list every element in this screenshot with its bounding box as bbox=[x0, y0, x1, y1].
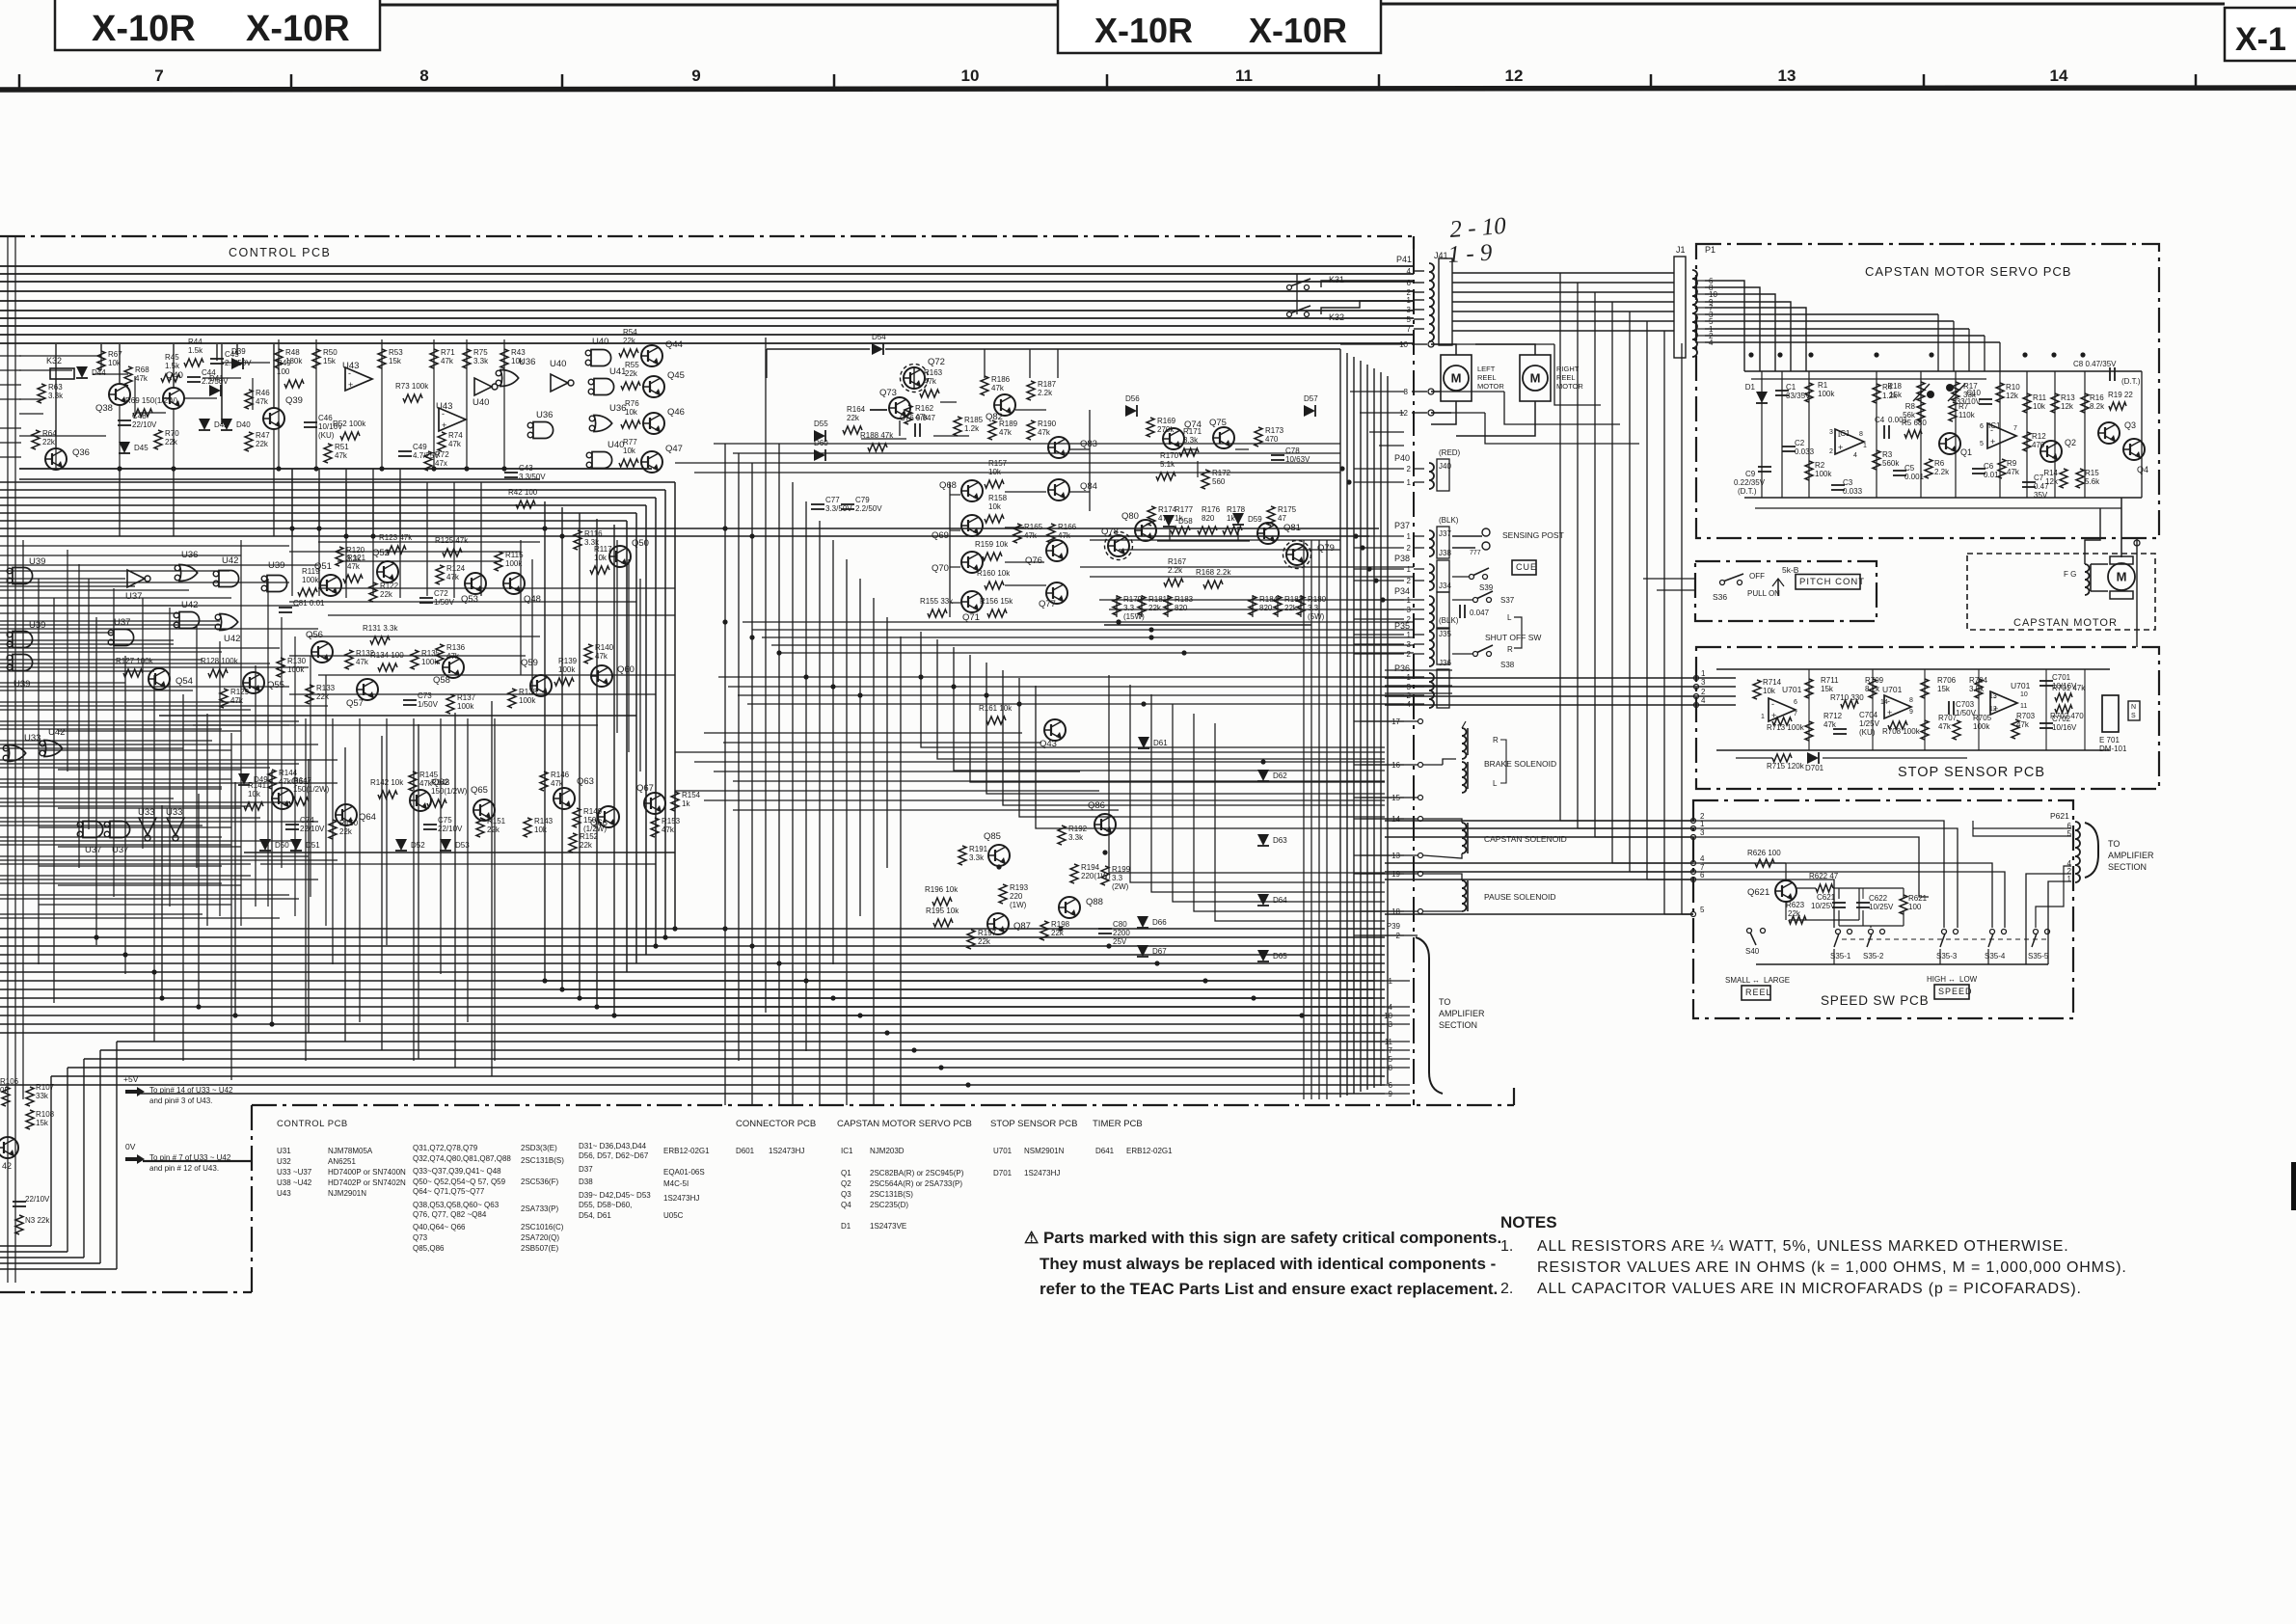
wire vertical left bbox=[124, 656, 126, 974]
ruler tick bbox=[1106, 74, 1109, 88]
svg-text:2SD3(3(E): 2SD3(3(E) bbox=[521, 1144, 557, 1152]
svg-text:R131 3.3k: R131 3.3k bbox=[363, 624, 398, 633]
resistor R5 bbox=[1904, 430, 1922, 438]
wire center horizontal bbox=[1099, 599, 1414, 601]
ruler tick bbox=[290, 74, 293, 88]
svg-text:R177: R177 bbox=[1175, 505, 1194, 514]
svg-text:1: 1 bbox=[1407, 478, 1412, 487]
svg-text:12k: 12k bbox=[2045, 477, 2059, 486]
svg-text:D55, D58~D60,: D55, D58~D60, bbox=[579, 1201, 632, 1209]
resistor R47 bbox=[245, 432, 253, 451]
svg-text:R162: R162 bbox=[915, 404, 934, 413]
REEL label bbox=[1742, 986, 1770, 1000]
svg-text:HD7400P or SN7400N: HD7400P or SN7400N bbox=[328, 1168, 406, 1177]
svg-text:4: 4 bbox=[1853, 452, 1857, 459]
right reel motor bbox=[1520, 355, 1551, 401]
diode D60 bbox=[814, 449, 825, 461]
svg-text:100: 100 bbox=[1908, 903, 1922, 911]
svg-text:R71: R71 bbox=[441, 348, 455, 357]
wire bus bottom riser bbox=[161, 805, 163, 998]
wire bus top bbox=[0, 265, 1414, 267]
svg-text:R158: R158 bbox=[988, 494, 1008, 502]
switch S37 bbox=[1473, 598, 1478, 603]
svg-text:K32: K32 bbox=[46, 356, 62, 365]
svg-text:Q76, Q77, Q82 ~Q84: Q76, Q77, Q82 ~Q84 bbox=[413, 1210, 487, 1219]
resistor R712 bbox=[1805, 721, 1813, 741]
svg-text:D56, D57, D62~D67: D56, D57, D62~D67 bbox=[579, 1151, 649, 1160]
wire P1 feed bbox=[1705, 335, 1985, 337]
svg-text:2.: 2. bbox=[1500, 1281, 1513, 1297]
svg-text:1: 1 bbox=[1407, 532, 1412, 541]
wire bus mid bbox=[0, 489, 665, 491]
wire P1 feed bbox=[1705, 287, 1760, 371]
wire horizontal left bbox=[0, 836, 222, 838]
svg-text:R45: R45 bbox=[165, 353, 179, 362]
svg-text:X-10R: X-10R bbox=[1249, 11, 1347, 50]
diode D53 bbox=[440, 839, 451, 851]
wire center horizontal 2 bbox=[675, 462, 1340, 464]
svg-text:22k: 22k bbox=[580, 841, 593, 850]
wire junction bbox=[577, 995, 581, 1000]
scan artifact right edge bbox=[2291, 1162, 2296, 1210]
resistor R707 bbox=[1921, 720, 1929, 740]
wire junction bbox=[830, 684, 835, 689]
resistor R626 bbox=[1755, 859, 1774, 867]
svg-text:15k: 15k bbox=[389, 357, 402, 365]
svg-text:R709: R709 bbox=[1865, 676, 1884, 685]
pause solenoid coil bbox=[1462, 880, 1467, 911]
wire pin10 link bbox=[1431, 343, 1554, 345]
svg-text:R13: R13 bbox=[2061, 393, 2075, 402]
wire junction bbox=[884, 1030, 889, 1035]
wire vertical center bbox=[819, 521, 821, 1105]
wire vertical right trunk bbox=[1646, 321, 1648, 880]
wire stop sensor feed bbox=[1385, 677, 1452, 679]
wire vertical right trunk bbox=[1629, 311, 1631, 872]
U39 gate bbox=[13, 568, 33, 584]
transistor Q59 bbox=[530, 675, 552, 696]
svg-text:D54, D61: D54, D61 bbox=[579, 1211, 611, 1220]
wire vertical left bbox=[182, 694, 184, 1061]
svg-text:C74: C74 bbox=[300, 816, 314, 825]
svg-text:470: 470 bbox=[1265, 435, 1279, 444]
svg-text:Q1: Q1 bbox=[1960, 447, 1972, 457]
wire vertical center bbox=[859, 579, 861, 916]
svg-text:3.3: 3.3 bbox=[1112, 874, 1123, 882]
transistor Q40 bbox=[163, 388, 184, 409]
svg-text:0.033: 0.033 bbox=[1843, 487, 1863, 496]
wire J41-J1 link bbox=[1452, 282, 1674, 284]
svg-text:+: + bbox=[1990, 437, 1995, 447]
diode D64 bbox=[1257, 894, 1269, 906]
U42 gate bbox=[219, 571, 239, 587]
resistor R54 bbox=[619, 349, 638, 357]
svg-text:47k: 47k bbox=[446, 573, 460, 582]
transistor Q85 bbox=[988, 845, 1010, 866]
svg-text:S35-1: S35-1 bbox=[1830, 952, 1851, 961]
wire bus mid bbox=[0, 512, 636, 514]
wire bus mid bbox=[0, 520, 627, 522]
svg-text:S35-4: S35-4 bbox=[1985, 952, 2006, 961]
U43 opamp bbox=[439, 408, 466, 431]
wire K31 net bbox=[1321, 281, 1414, 287]
svg-text:6: 6 bbox=[1794, 699, 1797, 706]
wire center horizontal bbox=[752, 629, 1414, 631]
svg-text:R707: R707 bbox=[1938, 714, 1958, 722]
wire junction bbox=[431, 466, 436, 471]
resistor R44 bbox=[184, 359, 203, 366]
svg-text:J34: J34 bbox=[1439, 582, 1451, 590]
wire top-left drops bbox=[55, 344, 57, 448]
wire vertical connector bundle bbox=[1387, 376, 1389, 1084]
svg-text:22k: 22k bbox=[1284, 604, 1298, 612]
wire bus top bbox=[0, 273, 1414, 275]
svg-text:R178: R178 bbox=[1227, 505, 1246, 514]
svg-text:refer to the TEAC Parts List a: refer to the TEAC Parts List and ensure … bbox=[1040, 1280, 1498, 1298]
svg-text:R123 47k: R123 47k bbox=[379, 533, 413, 542]
svg-text:U33: U33 bbox=[166, 807, 182, 818]
svg-text:270k: 270k bbox=[1157, 425, 1175, 434]
wire vertical gate-area bbox=[196, 627, 198, 868]
wire horizontal left bbox=[0, 643, 174, 645]
svg-text:R119: R119 bbox=[302, 567, 320, 576]
resistor R140 bbox=[584, 644, 592, 663]
wire center elbow bbox=[921, 632, 1385, 747]
svg-text:R125 47k: R125 47k bbox=[435, 536, 469, 545]
cap 0.047 bbox=[1459, 605, 1461, 618]
svg-text:U33: U33 bbox=[138, 807, 154, 818]
svg-text:To pin # 7 of U33 ~ U42: To pin # 7 of U33 ~ U42 bbox=[149, 1153, 231, 1162]
resistor R19 bbox=[2109, 402, 2126, 410]
wire vertical left bbox=[95, 617, 97, 945]
svg-text:R196 10k: R196 10k bbox=[925, 885, 959, 894]
svg-text:Q53: Q53 bbox=[461, 594, 478, 605]
capstan motor FG coil bbox=[2085, 564, 2090, 595]
wire junction bbox=[803, 674, 808, 679]
cap C621 bbox=[1832, 902, 1846, 904]
svg-text:Q64: Q64 bbox=[359, 812, 376, 823]
svg-text:+: + bbox=[442, 420, 446, 430]
SPEED label bbox=[1934, 985, 1969, 999]
svg-text:F G: F G bbox=[2064, 570, 2076, 579]
svg-text:Q1: Q1 bbox=[841, 1169, 851, 1177]
transistor Q53 bbox=[465, 573, 486, 594]
transistor Q56 bbox=[311, 641, 333, 663]
wire horizontal gate-area bbox=[0, 805, 251, 807]
resistor R149 bbox=[573, 808, 581, 827]
wire pin feed bbox=[1354, 634, 1404, 636]
wire vertical gate-area bbox=[113, 588, 115, 897]
wire junction bbox=[1366, 566, 1371, 571]
wire P1 feed bbox=[1705, 281, 1744, 371]
svg-text:U40: U40 bbox=[550, 359, 566, 369]
svg-text:1.5k: 1.5k bbox=[165, 362, 180, 370]
svg-text:47k: 47k bbox=[279, 777, 292, 786]
svg-text:Q36: Q36 bbox=[72, 447, 90, 458]
svg-text:R175: R175 bbox=[1278, 505, 1297, 514]
wire junction bbox=[662, 934, 667, 939]
transistor Q88 bbox=[1059, 897, 1080, 918]
diode D55 bbox=[814, 430, 825, 442]
svg-text:R168 2.2k: R168 2.2k bbox=[1196, 568, 1231, 577]
wire center horizontal bbox=[1109, 609, 1414, 610]
U33 inverter down 2 bbox=[167, 818, 184, 841]
wire center elbow low bbox=[1109, 675, 1385, 873]
svg-text:9: 9 bbox=[1909, 709, 1913, 716]
diode D58 bbox=[1163, 515, 1175, 527]
wire horizontal left 2 bbox=[0, 859, 338, 861]
transistor Q61 bbox=[272, 788, 293, 809]
svg-text:U32: U32 bbox=[277, 1157, 291, 1166]
svg-text:R169: R169 bbox=[1157, 417, 1176, 425]
svg-text:R7: R7 bbox=[1958, 402, 1969, 411]
transistor Q46 bbox=[643, 413, 664, 434]
CAPSTAN MOTOR SERVO PCB boundary (dash-dot) bbox=[1696, 244, 2159, 538]
svg-text:R12: R12 bbox=[2032, 432, 2046, 441]
resistor R72 bbox=[424, 451, 432, 471]
svg-text:R11: R11 bbox=[2033, 393, 2047, 402]
svg-text:CAPSTAN MOTOR SERVO PCB: CAPSTAN MOTOR SERVO PCB bbox=[1865, 264, 2071, 279]
resistor R708 bbox=[1888, 721, 1907, 729]
wire center horizontal 2 bbox=[694, 472, 1340, 474]
svg-text:10k: 10k bbox=[2033, 402, 2046, 411]
svg-text:U37: U37 bbox=[114, 617, 130, 628]
wire junction bbox=[1251, 995, 1256, 1000]
svg-text:R10: R10 bbox=[2006, 383, 2020, 392]
resistor R145 bbox=[409, 771, 417, 791]
svg-text:100k: 100k bbox=[558, 665, 576, 674]
svg-text:REEL: REEL bbox=[1556, 373, 1576, 382]
svg-text:C9: C9 bbox=[1745, 470, 1756, 478]
wire bus-connector elbow bbox=[1369, 431, 1404, 433]
wire junction bbox=[1874, 352, 1878, 357]
svg-text:R152: R152 bbox=[580, 832, 599, 841]
transistor Q77 bbox=[1046, 582, 1067, 604]
svg-text:47k: 47k bbox=[448, 440, 462, 448]
svg-text:J35: J35 bbox=[1439, 630, 1451, 638]
resistor R70 bbox=[154, 430, 162, 449]
servo rail 2 bbox=[1751, 378, 1986, 380]
transistor Q44 bbox=[641, 345, 662, 366]
svg-text:X-10R: X-10R bbox=[246, 9, 350, 49]
resistor R107 bbox=[26, 1087, 34, 1106]
diode D41 bbox=[209, 385, 221, 396]
svg-text:+: + bbox=[348, 380, 353, 390]
wire P1 feed bbox=[1705, 302, 1791, 371]
svg-text:R: R bbox=[1493, 736, 1499, 744]
svg-text:D56: D56 bbox=[1125, 394, 1140, 403]
wire center horizontal 2 bbox=[733, 452, 1340, 454]
wire vertical right trunk bbox=[1577, 283, 1579, 828]
wire horizontal gate-area bbox=[0, 825, 203, 826]
svg-text:M: M bbox=[1530, 371, 1541, 386]
wire horizontal left bbox=[0, 682, 125, 684]
wire left-mid fill bbox=[39, 788, 222, 790]
U41 gate bbox=[594, 379, 614, 395]
resistor R199 bbox=[1101, 866, 1109, 885]
wire bus bottom bbox=[0, 945, 1385, 947]
servo bottom rail bbox=[1744, 497, 2142, 499]
svg-text:(BLK): (BLK) bbox=[1439, 516, 1459, 525]
wire bus bottom bbox=[0, 962, 1385, 964]
svg-text:R46: R46 bbox=[256, 389, 270, 397]
svg-text:R8: R8 bbox=[1905, 402, 1916, 411]
svg-text:Q73: Q73 bbox=[879, 388, 897, 398]
resistor R64 bbox=[32, 430, 40, 449]
wire P1 feed bbox=[1705, 341, 2000, 343]
svg-text:0.047: 0.047 bbox=[1470, 609, 1490, 617]
svg-text:L: L bbox=[1507, 613, 1512, 622]
wire junction bbox=[2051, 352, 2056, 357]
svg-text:10/25V: 10/25V bbox=[1869, 903, 1894, 911]
svg-text:C622: C622 bbox=[1869, 894, 1888, 903]
sensing post bbox=[1482, 528, 1490, 536]
svg-text:D38: D38 bbox=[579, 1177, 593, 1186]
svg-text:47k: 47k bbox=[135, 374, 149, 383]
P621 bracket bbox=[2085, 823, 2098, 878]
svg-text:R9: R9 bbox=[2007, 459, 2017, 468]
wire horizontal left bbox=[0, 778, 231, 780]
wire speed sw internals bbox=[1785, 863, 1787, 880]
svg-text:5.1k: 5.1k bbox=[1160, 460, 1175, 469]
svg-text:U43: U43 bbox=[342, 361, 359, 371]
wire left-mid fill bbox=[39, 826, 231, 828]
wire horizontal left 2 bbox=[0, 744, 318, 745]
wire bus bottom bbox=[0, 1006, 1385, 1008]
wire vertical center bbox=[738, 453, 740, 1061]
svg-text:R140: R140 bbox=[595, 643, 614, 652]
svg-text:C76 0.047: C76 0.047 bbox=[900, 414, 935, 422]
svg-text:47k: 47k bbox=[230, 696, 244, 705]
svg-text:12k: 12k bbox=[2006, 392, 2019, 400]
svg-text:R710 330: R710 330 bbox=[1830, 693, 1864, 702]
svg-text:110k: 110k bbox=[1958, 411, 1976, 420]
diode D39 bbox=[231, 358, 243, 369]
svg-text:15k: 15k bbox=[1821, 685, 1834, 693]
cap C2 bbox=[1782, 446, 1796, 447]
stop sensor rails bbox=[1716, 668, 2110, 670]
svg-text:Q2: Q2 bbox=[2065, 438, 2076, 447]
U36 gate bbox=[500, 370, 519, 387]
resistor R197 bbox=[967, 930, 975, 949]
svg-text:2 - 10: 2 - 10 bbox=[1449, 213, 1508, 243]
wire horizontal left 2 bbox=[0, 801, 289, 803]
resistor R143 bbox=[524, 818, 531, 837]
wire bus top bbox=[0, 325, 1414, 327]
wire center horizontal 2 bbox=[714, 443, 1340, 445]
svg-text:150(1/2W): 150(1/2W) bbox=[431, 787, 468, 796]
wire junction bbox=[542, 978, 547, 983]
resistor R704 bbox=[1975, 679, 1983, 698]
cap C701 bbox=[2039, 680, 2053, 682]
resistor R701 bbox=[2055, 693, 2072, 701]
svg-text:BRAKE SOLENOID: BRAKE SOLENOID bbox=[1484, 759, 1556, 769]
svg-text:Q67: Q67 bbox=[636, 783, 654, 794]
resistor R128 bbox=[208, 669, 228, 677]
resistor R51 bbox=[324, 444, 332, 463]
wire horizontal gate-area bbox=[0, 786, 222, 788]
wire junction bbox=[1154, 961, 1159, 965]
resistor R623 bbox=[1789, 916, 1806, 924]
svg-text:R187: R187 bbox=[1038, 380, 1057, 389]
wire left-mid vfill bbox=[616, 540, 618, 733]
wire vertical left bbox=[206, 714, 208, 926]
svg-text:47: 47 bbox=[1278, 514, 1286, 523]
U39 gate bbox=[267, 576, 287, 592]
wire center horizontal bbox=[747, 703, 1414, 705]
wire junction bbox=[1260, 759, 1265, 764]
wire left-mid fill bbox=[338, 560, 501, 562]
wire row rail low bbox=[244, 852, 675, 853]
svg-text:C2: C2 bbox=[1795, 439, 1805, 447]
wire junction bbox=[1106, 943, 1111, 948]
svg-text:X-10R: X-10R bbox=[92, 9, 196, 49]
resistor R151 bbox=[476, 818, 484, 837]
wire vertical connector bundle bbox=[1339, 349, 1341, 1097]
svg-text:0.033: 0.033 bbox=[1795, 447, 1815, 456]
svg-text:S: S bbox=[2131, 713, 2136, 719]
wire rail drops bbox=[119, 469, 121, 536]
wire bus bottom bbox=[0, 997, 1385, 999]
wire junction bbox=[1102, 850, 1107, 854]
svg-text:J36: J36 bbox=[1439, 659, 1451, 667]
wire junction bbox=[122, 952, 127, 957]
svg-text:D40: D40 bbox=[236, 420, 251, 429]
resistor R198 bbox=[1040, 921, 1048, 940]
wire left-mid fill bbox=[39, 904, 231, 906]
diode D56 bbox=[1125, 405, 1137, 417]
svg-text:C8 0.47/35V: C8 0.47/35V bbox=[2073, 360, 2117, 368]
wire center horizontal bbox=[1090, 576, 1414, 578]
resistor R13 bbox=[2051, 393, 2059, 413]
wire center elbow low bbox=[1173, 704, 1385, 902]
svg-text:2SC82BA(R) or 2SC945(P): 2SC82BA(R) or 2SC945(P) bbox=[870, 1169, 964, 1177]
svg-text:C77: C77 bbox=[825, 496, 840, 504]
svg-text:Q56: Q56 bbox=[306, 630, 323, 640]
svg-text:Q85: Q85 bbox=[984, 831, 1001, 842]
svg-text:R165: R165 bbox=[1024, 523, 1043, 531]
svg-text:S39: S39 bbox=[1479, 583, 1494, 592]
resistor R150 bbox=[329, 820, 337, 839]
svg-text:J38: J38 bbox=[1439, 549, 1451, 557]
wire horizontal gate-area bbox=[0, 670, 154, 672]
wire vertical connector bundle bbox=[1373, 368, 1375, 1088]
svg-text:R64: R64 bbox=[42, 429, 57, 438]
svg-text:D44: D44 bbox=[92, 368, 106, 377]
svg-text:22/10V: 22/10V bbox=[25, 1195, 50, 1204]
svg-text:U33 ~U37: U33 ~U37 bbox=[277, 1168, 312, 1177]
wire vertical center bbox=[792, 482, 794, 1105]
wire left-mid fill bbox=[39, 865, 222, 867]
wire top-left row links bbox=[19, 355, 101, 357]
wire bus bottom bbox=[0, 1023, 1385, 1025]
diode D67 bbox=[1137, 945, 1148, 957]
switch S38 bbox=[1473, 652, 1478, 657]
wire bus top bbox=[0, 317, 1414, 319]
resistor R43 bbox=[500, 349, 508, 368]
wire vertical connector bundle bbox=[1366, 365, 1368, 1090]
CONTROL PCB boundary (dash-dot) bbox=[0, 235, 1414, 237]
svg-text:R195 10k: R195 10k bbox=[926, 907, 959, 915]
resistor R116 bbox=[574, 530, 581, 550]
wire J41-J1 link bbox=[1452, 311, 1674, 312]
svg-text:100k: 100k bbox=[457, 702, 474, 711]
resistor R121 bbox=[343, 575, 363, 582]
wire horizontal gate-area bbox=[0, 589, 189, 591]
svg-text:R623: R623 bbox=[1786, 901, 1805, 909]
wire pin feed bbox=[1354, 854, 1404, 856]
wire horizontal left 2 bbox=[0, 724, 289, 726]
